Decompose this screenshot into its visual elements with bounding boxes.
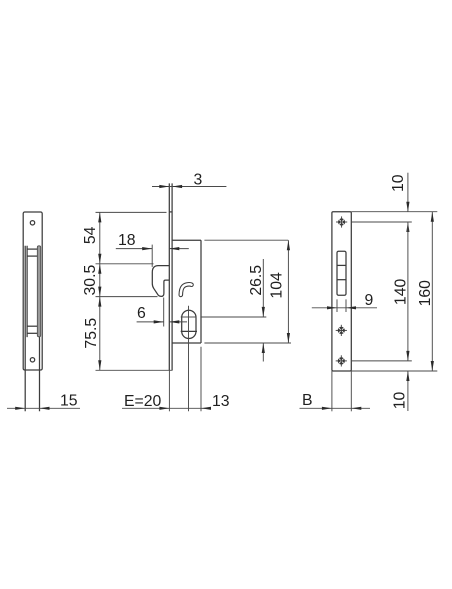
left view bottom screw hole <box>30 358 34 362</box>
dimension 10 bottom <box>392 371 410 411</box>
svg-text:104: 104 <box>268 272 285 299</box>
curved slot cutout <box>181 284 192 295</box>
dimension 3 <box>152 171 226 188</box>
case top extension line <box>204 239 288 241</box>
svg-text:75.5: 75.5 <box>83 318 100 349</box>
left view slot left edge <box>26 246 28 336</box>
svg-text:15: 15 <box>60 392 78 409</box>
svg-text:3: 3 <box>194 171 203 188</box>
left dimension column line <box>96 212 173 370</box>
svg-text:9: 9 <box>365 292 374 309</box>
dimension B <box>300 392 371 410</box>
svg-text:13: 13 <box>212 393 230 410</box>
oval chord lines <box>181 330 197 332</box>
svg-text:54: 54 <box>82 226 99 244</box>
case right edge extension <box>200 347 202 412</box>
dimension 104 <box>268 240 290 343</box>
svg-text:26.5: 26.5 <box>248 265 265 296</box>
dimension 6 <box>137 298 187 327</box>
svg-text:30.5: 30.5 <box>82 265 99 296</box>
dimension 26.5 <box>248 259 265 362</box>
faceplate edge lines <box>169 183 172 370</box>
left view bottom bars <box>27 326 37 333</box>
dimension E=20 and 13 <box>122 393 230 410</box>
dimension 18 <box>116 232 189 267</box>
bottom screw hole <box>336 355 347 366</box>
oval top chord extension line <box>181 316 197 318</box>
svg-text:10: 10 <box>390 174 407 192</box>
case bottom extension line <box>204 342 291 344</box>
lock case outline <box>172 240 201 343</box>
svg-text:18: 18 <box>118 232 136 249</box>
strike plate outline <box>332 212 351 371</box>
left view case edge lines <box>25 246 39 411</box>
dimension 10 top <box>390 173 410 232</box>
svg-text:E=20: E=20 <box>124 393 162 410</box>
left view top bars <box>27 249 37 256</box>
hook bolt <box>152 266 169 297</box>
oval centre line <box>188 306 190 412</box>
dimension 160 <box>417 212 434 371</box>
strike plate lower extension lines <box>332 371 351 411</box>
slot divider lines <box>337 265 346 279</box>
faceplate lower extension <box>168 370 170 411</box>
svg-text:160: 160 <box>417 280 434 307</box>
svg-text:6: 6 <box>137 305 146 322</box>
svg-text:140: 140 <box>393 279 410 306</box>
dimension 9 <box>312 292 377 312</box>
dimension 140 <box>393 222 410 361</box>
svg-text:10: 10 <box>392 392 409 410</box>
left view gray side stripe <box>37 246 40 337</box>
dimension 15 <box>7 392 80 410</box>
left view top screw hole <box>30 221 34 225</box>
left view faceplate outline <box>23 212 42 370</box>
top screw hole <box>336 216 347 227</box>
middle screw hole <box>336 325 347 336</box>
svg-text:B: B <box>302 392 313 409</box>
strike plate slot <box>337 251 346 295</box>
cylinder oval hole <box>182 310 196 338</box>
right extension lines <box>351 212 437 371</box>
